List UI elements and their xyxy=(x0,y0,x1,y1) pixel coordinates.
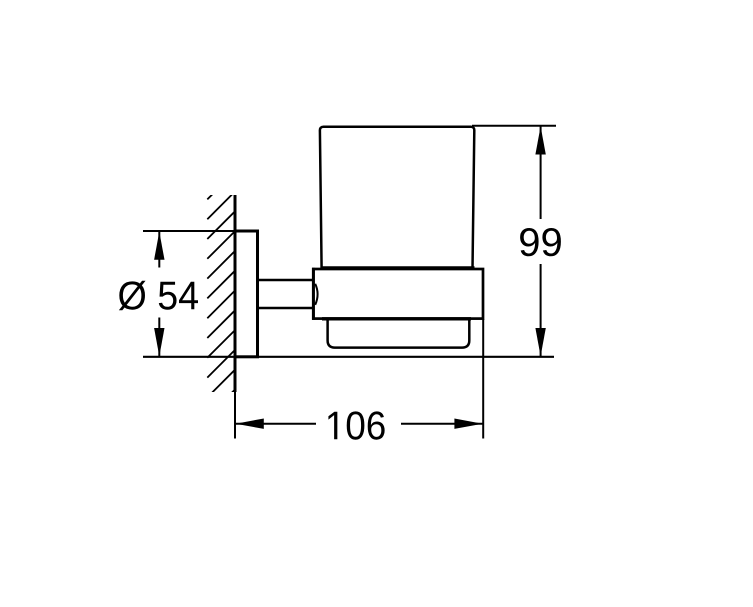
extension line right of holder down to 106 dim xyxy=(482,319,484,439)
wall plate xyxy=(235,231,258,357)
glass bottom piece xyxy=(328,316,470,348)
label "106" xyxy=(328,411,384,439)
dim line 106 xyxy=(235,423,483,425)
glass bottom rim (thick) xyxy=(321,266,475,271)
extension line: wall line continuation down to 106 dim xyxy=(234,357,236,439)
arrowhead left (106) xyxy=(236,419,264,429)
arm xyxy=(258,280,314,308)
arrowhead up (99) xyxy=(535,126,545,154)
extension line top right (99) xyxy=(472,125,556,127)
extension line top (dia 54) xyxy=(143,230,235,232)
wall hatching xyxy=(207,170,236,417)
label "O54" (diameter 54) xyxy=(119,281,198,311)
holder inner arc xyxy=(315,284,317,305)
dim line 99 xyxy=(540,126,542,357)
wall line xyxy=(234,195,237,392)
arrowhead right (106) xyxy=(454,419,482,429)
baseline xyxy=(143,356,554,358)
glass body xyxy=(320,127,474,269)
holder ring xyxy=(313,269,483,319)
dim line dia54 xyxy=(158,231,160,357)
arrowhead down (dia 54) xyxy=(154,328,164,356)
holder left edge thick xyxy=(312,268,315,320)
label "99" xyxy=(520,228,561,256)
arrowhead down (99) xyxy=(535,328,545,356)
arrowhead up (dia 54) xyxy=(154,232,164,260)
holder bottom thick segment xyxy=(322,317,471,320)
